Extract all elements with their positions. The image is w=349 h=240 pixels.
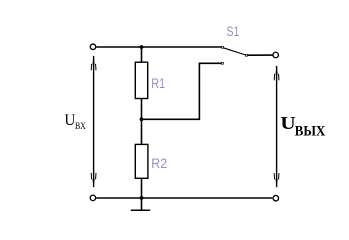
svg-text:U: U	[64, 111, 75, 129]
svg-text:S1: S1	[227, 24, 240, 40]
svg-text:ВЫХ: ВЫХ	[295, 123, 326, 139]
svg-text:U: U	[280, 113, 295, 133]
svg-text:ВХ: ВХ	[75, 121, 86, 132]
svg-text:R2: R2	[151, 156, 167, 172]
svg-text:R1: R1	[151, 76, 165, 92]
